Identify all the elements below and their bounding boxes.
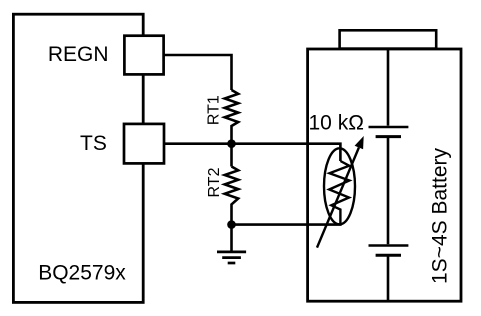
pin REGN [124,36,163,75]
battery center line [387,49,390,301]
pin TS [124,124,164,163]
svg-text:TS: TS [80,132,107,155]
node ground junction dot [227,220,236,229]
thermistor RT zigzag [329,161,349,225]
thermistor arrow shaft [317,148,359,248]
ground [230,225,233,252]
svg-text:10 kΩ: 10 kΩ [309,111,364,134]
battery box [308,49,461,301]
resistor RT1 [225,90,239,144]
wire TS to thermistor [164,144,340,161]
svg-text:REGN: REGN [48,43,109,66]
svg-text:1S~4S Battery: 1S~4S Battery [429,148,452,284]
svg-text:BQ2579x: BQ2579x [38,262,126,285]
thermistor arrow head [355,136,364,149]
node TS junction dot [227,139,236,148]
wire bottom node to thermistor [232,223,342,226]
wire node to RT2 [230,144,233,167]
battery terminal block [340,30,437,48]
svg-text:RT1: RT1 [205,95,222,125]
battery cell 1 plates [369,126,409,128]
thermistor ellipse [324,148,355,224]
resistor RT2 [225,167,239,225]
IC box BQ2579x [13,14,143,302]
svg-text:RT2: RT2 [206,167,223,197]
battery cell 2 plates [369,244,409,246]
wire REGN to RT1 [164,55,232,90]
